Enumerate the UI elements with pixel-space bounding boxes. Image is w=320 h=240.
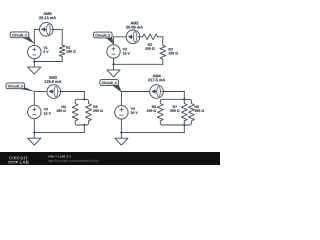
wire bottom rail circuit3 bbox=[34, 132, 84, 134]
stub R7 bottom bbox=[183, 121, 185, 125]
wire V3 rail to AM3 bbox=[34, 91, 47, 93]
ammeter AM3 symbol bbox=[47, 85, 61, 99]
wire vertical V3 top bbox=[33, 92, 35, 106]
resistor R8 zigzag bbox=[189, 104, 195, 121]
resistor R6 zigzag bbox=[157, 104, 163, 121]
voltage source V2 bbox=[107, 45, 120, 58]
label V1 bbox=[43, 47, 47, 49]
stub R7 top bbox=[183, 99, 185, 103]
resistor R7 zigzag bbox=[181, 104, 187, 121]
wire R3 bottom bbox=[162, 59, 164, 64]
wire V1-top rail to AM5 left bbox=[34, 28, 39, 30]
ammeter AM5 symbol bbox=[40, 23, 54, 37]
top bar parallel R4 R5 bbox=[75, 99, 88, 103]
wire AM4 right to feed corner bbox=[163, 91, 184, 93]
wire V2 rail to AM2 bbox=[114, 36, 127, 38]
wire bottom rail circuit2 bbox=[114, 63, 163, 65]
wire R1 bottom bbox=[61, 57, 63, 62]
resistor R5 zigzag bbox=[86, 104, 92, 121]
resistor R4 zigzag bbox=[72, 104, 78, 121]
footer URL line 2 bbox=[48, 160, 98, 163]
junction dot top circuit3 bbox=[83, 98, 85, 100]
ammeter AM4 reading 217.5 mA bbox=[148, 79, 165, 82]
ammeter AM5 reading 25.13 mA bbox=[39, 16, 56, 19]
value V3 15V bbox=[44, 112, 51, 114]
label R3 bbox=[169, 48, 173, 50]
junction dot circuit2 ground node bbox=[112, 63, 114, 65]
bottom bar parallel R4 R5 bbox=[75, 121, 88, 125]
label R5 bbox=[93, 106, 97, 108]
top bar parallel R6 R7 R8 bbox=[160, 99, 191, 103]
label R8 bbox=[195, 106, 199, 108]
value R6 199 ohm bbox=[147, 109, 156, 111]
resistor R2 zigzag horizontal bbox=[143, 34, 158, 40]
node flag Circuit_2 bbox=[94, 32, 114, 44]
label R4 bbox=[62, 106, 66, 108]
wire V3 bottom bbox=[33, 118, 35, 132]
ground circuit4 bbox=[115, 133, 128, 146]
label R6 bbox=[152, 106, 156, 108]
wire feed down to parallel bar c4 bbox=[183, 92, 185, 100]
value V4 20V bbox=[131, 111, 138, 113]
voltage source V3 bbox=[28, 105, 41, 118]
ammeter AM2 reading 20.08 mA bbox=[126, 26, 143, 29]
CircuitLab logo bbox=[8, 157, 29, 164]
value R4 199 ohm bbox=[57, 109, 66, 111]
wire vertical V4 top bbox=[120, 92, 122, 106]
wire down to R1 top bbox=[61, 29, 63, 45]
value R8 399 ohm bbox=[195, 109, 204, 111]
label V3 bbox=[44, 108, 48, 110]
ground circuit2 bbox=[107, 64, 120, 77]
wire AM5 right to R1 corner bbox=[53, 28, 62, 30]
junction dot top circuit4 bbox=[183, 98, 185, 100]
bottom bar parallel R6 R7 R8 bbox=[160, 121, 191, 125]
value R1 199 ohm bbox=[66, 50, 75, 52]
wire vertical V1 top bbox=[33, 29, 35, 45]
value R2 199 ohm bbox=[145, 47, 154, 49]
label V4 bbox=[131, 107, 135, 109]
wire exit down circuit3 bbox=[83, 125, 85, 133]
junction dot bottom circuit4 bbox=[183, 124, 185, 126]
voltage source V1 bbox=[28, 45, 41, 58]
voltage source V4 bbox=[115, 106, 128, 119]
wire bottom rail circuit4 bbox=[121, 132, 184, 134]
wire V4 bottom bbox=[120, 119, 122, 133]
label R1 bbox=[66, 46, 70, 48]
wire bottom rail circuit1 bbox=[34, 61, 62, 63]
junction dot circuit1 ground node bbox=[33, 60, 35, 62]
ground circuit1 bbox=[28, 62, 41, 75]
node flag Circuit_1 bbox=[10, 32, 34, 43]
ammeter AM4 name label bbox=[153, 75, 161, 78]
junction dot circuit3 ground node bbox=[33, 131, 35, 133]
resistor R3 zigzag bbox=[160, 45, 166, 59]
wire feed down to parallel bar bbox=[83, 92, 85, 100]
value V2 10V bbox=[123, 52, 130, 54]
label R2 bbox=[148, 43, 152, 45]
value R5 299 ohm bbox=[93, 109, 102, 111]
ammeter AM3 name label bbox=[49, 76, 57, 79]
value R3 299 ohm bbox=[169, 52, 178, 54]
ammeter AM5 name label bbox=[43, 12, 51, 15]
footer text line 1 bbox=[48, 155, 71, 157]
wire V2 bottom bbox=[113, 58, 115, 64]
ammeter AM2 symbol bbox=[126, 30, 140, 44]
footer bar bbox=[0, 152, 220, 165]
ground circuit3 bbox=[28, 133, 41, 146]
label R7 bbox=[173, 106, 177, 108]
node flag Circuit_4 bbox=[100, 80, 122, 93]
wire down to R3 top bbox=[162, 37, 164, 46]
wire V4 rail to AM4 bbox=[121, 91, 149, 93]
value R7 299 ohm bbox=[170, 109, 179, 111]
label V2 bbox=[123, 48, 127, 50]
ammeter AM2 name label bbox=[130, 22, 138, 25]
wire vertical V2 top bbox=[113, 37, 115, 45]
node flag Circuit_3 bbox=[6, 83, 34, 91]
resistor R1 zigzag bbox=[59, 45, 65, 56]
wire exit down circuit4 bbox=[183, 125, 185, 133]
junction dot circuit4 ground node bbox=[120, 131, 122, 133]
wire V1 bottom bbox=[33, 59, 35, 62]
wire R2 to corner bbox=[158, 36, 163, 38]
junction dot bottom circuit3 bbox=[83, 124, 85, 126]
ammeter AM4 symbol bbox=[150, 85, 164, 99]
wire AM3 right to feed corner bbox=[61, 91, 85, 93]
ammeter AM3 reading 125.5 mA bbox=[44, 80, 61, 83]
wire AM2 right to R2 bbox=[140, 36, 143, 38]
value V1 5V bbox=[44, 51, 49, 53]
